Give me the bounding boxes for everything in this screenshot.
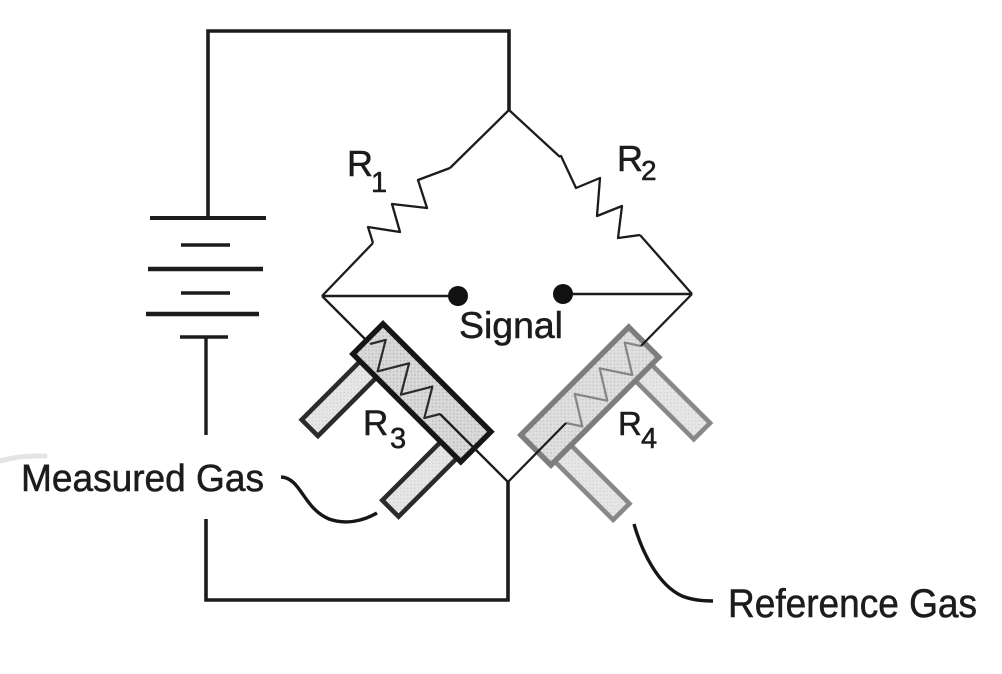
svg-text:R: R — [347, 143, 373, 184]
svg-text:Signal: Signal — [459, 305, 563, 346]
resistor R1 zigzag — [368, 168, 450, 243]
wire: left node to signal tap — [322, 295, 457, 298]
wire: left node into sensor R3 — [322, 296, 372, 346]
wire: bridge edge top node to R2 — [509, 110, 560, 157]
wire: R2 to right node — [640, 235, 692, 294]
svg-text:R: R — [618, 405, 642, 442]
node: signal junction dot (left) — [448, 286, 468, 306]
scan smudge (faint) — [0, 456, 45, 461]
sensor R4 (reference-gas filament cell) — [521, 327, 718, 524]
R3 inlet stem (lower) — [382, 441, 458, 517]
R4 inlet stem (upper right) — [634, 364, 710, 440]
wire: bridge edge top node to R1 — [450, 110, 509, 168]
battery B1 — [146, 218, 266, 337]
R4 body — [521, 327, 659, 465]
svg-text:1: 1 — [371, 167, 387, 199]
node: signal junction dot (right) — [553, 284, 573, 304]
wire: R4 lead to bottom node — [508, 423, 566, 482]
R4 inlet stem (lower) — [554, 444, 630, 520]
svg-text:R: R — [617, 138, 643, 179]
wire: right node to signal tap — [564, 293, 692, 296]
wire: battery negative down (upper segment, breaks for label) — [204, 337, 207, 435]
svg-text:4: 4 — [641, 423, 657, 455]
R4 filament zigzag — [566, 343, 641, 427]
svg-text:Measured Gas: Measured Gas — [21, 458, 264, 500]
leader: Measured Gas to R3 stem — [281, 477, 377, 522]
sensor R3 (measured-gas filament cell) — [294, 324, 491, 521]
leader: Reference Gas to R4 stem — [634, 524, 713, 601]
resistor R2 zigzag — [560, 156, 640, 238]
svg-text:2: 2 — [641, 155, 657, 186]
svg-text:3: 3 — [390, 423, 406, 455]
wire: R4 lead over body from NE corner to zigzag — [641, 294, 692, 346]
wire: top bus from battery positive up and across to bridge top node — [208, 31, 509, 216]
svg-text:R: R — [363, 404, 388, 443]
wire: R3 lead over body to bottom node — [440, 414, 508, 482]
R3 filament zigzag — [370, 340, 440, 418]
R3 inlet stem (upper) — [302, 360, 378, 436]
svg-text:Reference Gas: Reference Gas — [728, 582, 977, 626]
R3 body — [353, 324, 491, 462]
wire: bottom-left segment and bottom bus to bridge bottom node — [206, 482, 508, 600]
wire: R1 to left node — [322, 243, 373, 296]
